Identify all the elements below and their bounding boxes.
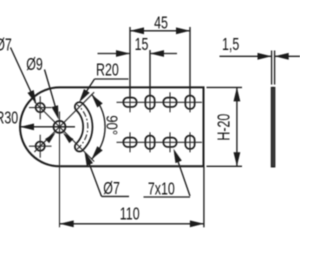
side view plate section: [271, 88, 274, 167]
svg-text:1,5: 1,5: [222, 35, 239, 55]
slot vertical centerline x=150 row1: [149, 92, 151, 112]
hole O9 center: [54, 121, 66, 133]
slot 7x10 tall row1 col4: [185, 96, 194, 109]
svg-text:45: 45: [154, 13, 168, 33]
dim 45 extension lines: [129, 27, 131, 97]
center hole diameter arrows on diagonals: [63, 133, 74, 144]
slot vertical centerline x=170 row1: [169, 92, 171, 112]
arc slot R20: [75, 102, 93, 151]
centerline diagonal B (225deg holes axis): [34, 92, 94, 152]
slot vertical centerline x=190 row1: [189, 92, 191, 112]
slot 7x10 tall row1 col2: [145, 96, 154, 109]
dim H-20 extension lines: [207, 86, 243, 88]
R20 leader shelf: [95, 78, 129, 80]
centerline diagonal A (135deg holes axis): [34, 102, 94, 162]
slot vertical centerline x=130 row2: [129, 132, 131, 152]
slot 7x10 wide row2 col3: [163, 138, 176, 147]
dim 1,5 line (outside arrows): [220, 55, 272, 57]
dim 45 line: [130, 30, 190, 32]
slot row 2 horizontal centerline: [117, 141, 203, 143]
slot vertical centerline x=190 row2: [189, 132, 191, 152]
lower O7 hole centerlines: [29, 145, 52, 147]
svg-text:7x10: 7x10: [148, 180, 175, 200]
O9 leader: [45, 70, 58, 115]
O7 lower leader shelf: [102, 195, 130, 197]
hole O7 upper-left: [36, 103, 45, 112]
slot vertical centerline x=130 row1: [129, 92, 131, 112]
svg-text:110: 110: [120, 205, 140, 225]
slot 7x10 tall row2 col2: [145, 136, 154, 149]
dim 15 line (outside arrows): [98, 53, 131, 55]
plate outline: [20, 87, 203, 166]
svg-text:Ø9: Ø9: [26, 55, 43, 75]
svg-text:Ø7: Ø7: [103, 179, 120, 199]
slot row 1 horizontal centerline: [117, 101, 203, 103]
R20 leader: [81, 79, 94, 100]
center hole vertical centerline / 110 extension: [59, 112, 61, 228]
upper O7 hole centerlines: [29, 107, 52, 109]
7x10 leader shelf: [144, 196, 191, 198]
svg-text:R20: R20: [96, 61, 119, 81]
R30 arrowhead: [20, 123, 34, 130]
90deg dimension arc: [91, 94, 105, 159]
dim 110 line: [60, 223, 204, 225]
O7 upper leader: [11, 48, 35, 100]
7x10 leader: [175, 152, 190, 196]
dim 15 extension line: [149, 50, 151, 96]
slot vertical centerline x=170 row2: [169, 132, 171, 152]
slot centerline arc (dash-dot): [77, 105, 88, 150]
dim 1,5 extension lines: [271, 51, 273, 85]
center hole horizontal centerline + R30 leader: [20, 126, 75, 128]
90deg arc arrowheads: [91, 94, 102, 107]
slot vertical centerline x=150 row2: [149, 132, 151, 152]
dim 110 extension line right: [203, 166, 205, 227]
svg-text:90°: 90°: [102, 115, 119, 135]
slot 7x10 wide row2 col1: [123, 138, 136, 147]
svg-text:15: 15: [135, 35, 149, 55]
hole O7 lower-left: [36, 142, 45, 151]
dim H-20 line: [236, 87, 238, 166]
O7 lower leader: [86, 156, 101, 197]
slot 7x10 tall row2 col4: [185, 136, 194, 149]
slot 7x10 wide row1 col1: [123, 98, 136, 107]
svg-text:H-20: H-20: [214, 114, 234, 141]
svg-text:R30: R30: [0, 109, 18, 129]
svg-text:Ø7: Ø7: [0, 35, 12, 55]
slot 7x10 wide row1 col3: [163, 98, 176, 107]
